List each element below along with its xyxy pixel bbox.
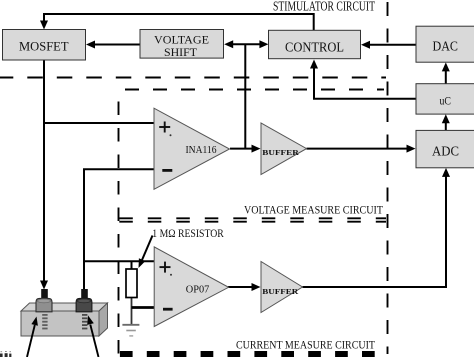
- svg-text:uC: uC: [440, 93, 452, 107]
- wire: INA116 output to buffer: [230, 148, 253, 150]
- wire: feedback vertical from INA116 output up to control line: [244, 44, 246, 148]
- sample block front face: [21, 311, 99, 336]
- svg-text:BUFFER: BUFFER: [262, 287, 298, 296]
- block VOLTAGE SHIFT: [140, 30, 224, 59]
- wire: voltage shift to mosfet: [93, 44, 140, 46]
- wire: INA116 plus input: [44, 122, 154, 124]
- svg-text:CURRENT MEASURE CIRCUIT: CURRENT MEASURE CIRCUIT: [236, 338, 376, 352]
- arrowhead into control right: [361, 41, 370, 49]
- svg-text:INA116: INA116: [186, 145, 217, 156]
- electrode 2 cap: [81, 289, 88, 299]
- dashed boundary: current measure circuit top edge: [118, 221, 386, 223]
- INA116 minus sign: [162, 169, 172, 172]
- arrowhead into control left: [259, 40, 268, 48]
- electrode 1 body: [36, 298, 52, 311]
- arrowhead into buffer U4: [252, 283, 261, 291]
- svg-text:SHIFT: SHIFT: [164, 45, 198, 59]
- annotation arrow to resistor: [142, 236, 153, 261]
- wire: ADC to uC: [445, 122, 447, 131]
- buffer U4 (current): [261, 262, 303, 313]
- arrowhead into mosfet right: [86, 41, 95, 49]
- block ADC: [416, 130, 474, 167]
- ground symbol: [122, 324, 139, 326]
- arrowhead into ADC bottom: [442, 168, 450, 177]
- OP07 plus sign: [160, 266, 171, 268]
- wire: DAC to control: [368, 44, 416, 46]
- svg-text:MOSFET: MOSFET: [19, 38, 69, 53]
- svg-text:STIMULATOR CIRCUIT: STIMULATOR CIRCUIT: [273, 0, 375, 14]
- wire: OP07 minus input: [132, 306, 155, 309]
- sample block right face: [99, 303, 108, 336]
- wire: resistor bottom lead to ground: [131, 296, 133, 325]
- annotation arrow to electrode 1: [27, 325, 35, 357]
- electrode 2 threads: [82, 314, 87, 329]
- wire: INA116 minus input from electrode 2: [84, 169, 154, 289]
- svg-text:ADC: ADC: [432, 143, 459, 158]
- arrowhead into buffer U2: [252, 145, 261, 153]
- cut-off label at bottom left corner: [0, 351, 11, 357]
- wire: control top feedback to mosfet top: [44, 14, 314, 31]
- arrowhead into ADC left: [407, 145, 416, 153]
- arrowhead onto electrode 1: [40, 281, 48, 290]
- wire: uC to DAC: [445, 71, 447, 84]
- electrode 2 body: [76, 298, 92, 311]
- dashed boundary: voltage measure circuit top edge: [118, 89, 384, 91]
- dashed boundary: measure circuits left edge: [118, 90, 120, 355]
- block CONTROL: [269, 30, 361, 58]
- svg-text:DAC: DAC: [433, 39, 459, 54]
- OP07 minus sign: [163, 308, 173, 311]
- op-amp INA116: [154, 108, 230, 189]
- arrowhead into control bottom: [310, 60, 318, 69]
- block uC: [416, 84, 474, 114]
- wire: buffer U4 output to ADC bottom: [303, 176, 447, 287]
- dashed boundary: stimulator circuit bottom edge: [0, 77, 386, 79]
- electrode 1 cap: [41, 289, 48, 299]
- wire: resistor top lead: [131, 261, 133, 270]
- svg-text:CONTROL: CONTROL: [285, 40, 344, 55]
- annotation arrow to electrode 2: [90, 325, 98, 357]
- dashed boundary: current measure circuit bottom edge: [118, 351, 388, 357]
- svg-text:BUFFER: BUFFER: [262, 148, 299, 157]
- svg-text:VOLTAGE: VOLTAGE: [154, 32, 209, 46]
- wire: OP07 output to buffer U4: [228, 286, 253, 288]
- wire: OP07 plus input from electrode 2 wire: [84, 260, 154, 262]
- svg-text:1 MΩ RESISTOR: 1 MΩ RESISTOR: [152, 228, 224, 240]
- arrowhead into DAC bottom: [442, 62, 450, 71]
- block MOSFET: [3, 30, 86, 61]
- block DAC: [416, 26, 474, 62]
- buffer U2 (voltage): [261, 123, 307, 175]
- sample block top face: [21, 303, 108, 311]
- wire: control to voltage shift (double arrow): [231, 43, 263, 45]
- dashed boundary: right edge vertical: [387, 0, 389, 354]
- electrode 1 threads: [42, 314, 47, 329]
- arrowhead into uC bottom: [442, 114, 450, 123]
- wire: buffer U2 output to ADC: [307, 148, 409, 150]
- op-amp OP07: [154, 247, 228, 327]
- resistor R1 1Mohm: [126, 269, 137, 298]
- dashed boundary: voltage measure circuit bottom edge: [118, 217, 386, 219]
- arrowhead into voltage shift right: [224, 40, 233, 48]
- wire: uC to control bottom: [314, 68, 416, 99]
- svg-text:OP07: OP07: [186, 284, 210, 295]
- wire: mosfet bottom down to electrode 1: [43, 61, 45, 283]
- arrowhead into mosfet top: [40, 21, 48, 30]
- svg-text:VOLTAGE MEASURE CIRCUIT: VOLTAGE MEASURE CIRCUIT: [244, 203, 384, 217]
- INA116 plus sign: [159, 126, 170, 128]
